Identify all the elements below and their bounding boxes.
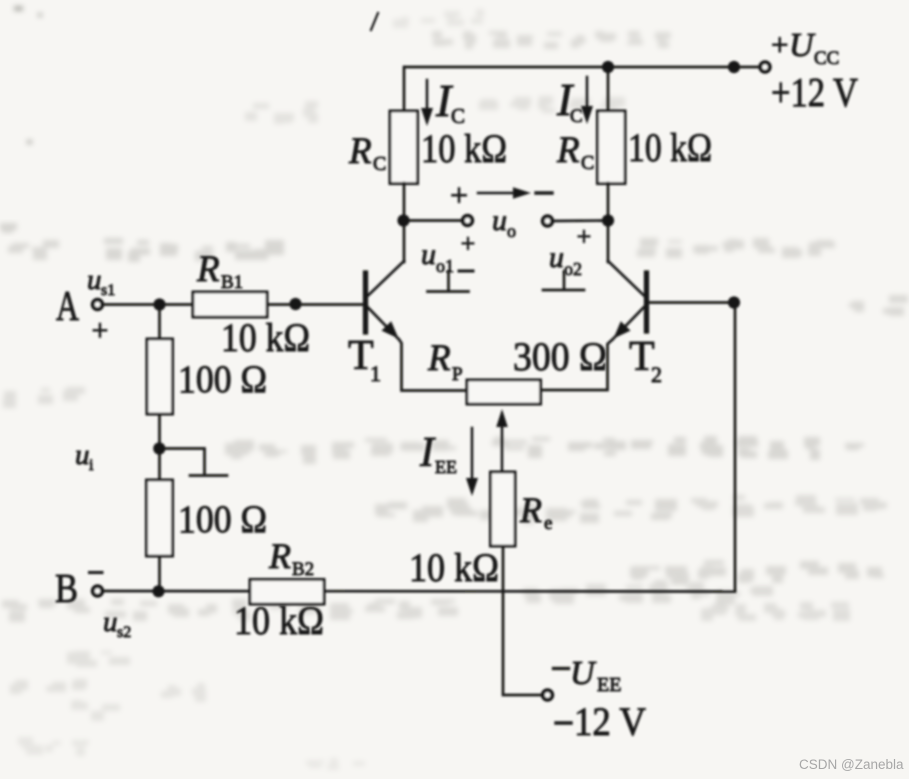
svg-text:C: C: [451, 104, 465, 128]
svg-text:P: P: [452, 364, 463, 385]
svg-text:B: B: [55, 565, 78, 611]
svg-text:o2: o2: [564, 259, 582, 279]
svg-text:+: +: [461, 229, 476, 258]
svg-text:u: u: [103, 606, 118, 638]
svg-text:CC: CC: [814, 48, 839, 69]
svg-text:10 kΩ: 10 kΩ: [628, 125, 712, 170]
svg-text:EE: EE: [435, 457, 457, 477]
svg-text:R: R: [196, 249, 220, 290]
svg-text:U: U: [789, 27, 816, 64]
svg-text:10 kΩ: 10 kΩ: [409, 545, 499, 590]
svg-text:C: C: [570, 106, 583, 127]
svg-text:A: A: [56, 284, 79, 330]
svg-text:u: u: [549, 241, 564, 274]
svg-text:+: +: [450, 177, 468, 213]
svg-text:C: C: [581, 152, 594, 174]
svg-text:12 V: 12 V: [574, 699, 646, 744]
svg-text:10 kΩ: 10 kΩ: [221, 315, 310, 360]
svg-text:+: +: [771, 27, 788, 62]
svg-text:R: R: [519, 490, 542, 530]
svg-text:R: R: [348, 131, 372, 172]
svg-text:I: I: [419, 430, 436, 476]
svg-text:10 kΩ: 10 kΩ: [234, 598, 324, 643]
svg-text:300 Ω: 300 Ω: [513, 334, 607, 379]
svg-text:u: u: [87, 264, 102, 296]
svg-text:EE: EE: [597, 674, 621, 696]
svg-text:s1: s1: [101, 282, 115, 299]
svg-text:u: u: [75, 439, 90, 471]
svg-text:+: +: [577, 222, 592, 251]
svg-text:CSDN @Zanebla: CSDN @Zanebla: [799, 757, 904, 772]
svg-text:o1: o1: [436, 256, 454, 276]
svg-text:B1: B1: [221, 272, 243, 293]
svg-text:10 kΩ: 10 kΩ: [421, 126, 507, 171]
svg-text:u: u: [421, 238, 436, 271]
svg-text:+12 V: +12 V: [771, 69, 858, 115]
svg-text:s2: s2: [117, 624, 131, 641]
svg-text:R: R: [268, 536, 291, 576]
svg-text:C: C: [373, 153, 386, 175]
svg-text:100 Ω: 100 Ω: [178, 358, 267, 401]
svg-text:U: U: [570, 655, 597, 692]
svg-text:100 Ω: 100 Ω: [178, 498, 267, 541]
svg-text:e: e: [544, 513, 552, 534]
svg-text:R: R: [556, 130, 580, 171]
svg-text:2: 2: [651, 362, 662, 387]
svg-text:u: u: [492, 204, 507, 237]
svg-text:i: i: [89, 457, 94, 474]
svg-text:1: 1: [370, 361, 381, 386]
svg-text:B2: B2: [292, 559, 314, 580]
svg-text:+: +: [92, 314, 109, 347]
svg-text:R: R: [427, 338, 451, 379]
svg-text:o: o: [507, 221, 516, 241]
